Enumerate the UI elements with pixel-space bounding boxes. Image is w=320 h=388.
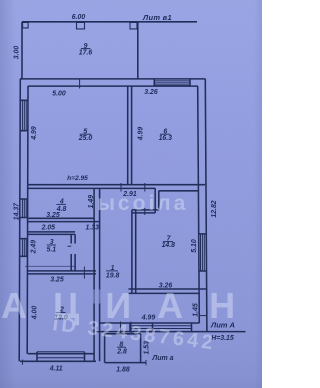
annex Лит в1 top line [22,21,197,23]
svg-text:4.99: 4.99 [138,127,145,142]
svg-text:h=2.95: h=2.95 [67,175,88,182]
serif bottom 1.88 [145,360,147,365]
svg-text:6.00: 6.00 [72,14,86,21]
svg-text:1.33: 1.33 [85,224,99,231]
bottom left wall outer [20,360,96,362]
window W3 left room3 [20,239,28,257]
svg-text:14.37: 14.37 [13,202,20,220]
window W2 left [20,199,28,218]
room 3 label [47,239,57,254]
svg-text:Лит а: Лит а [151,355,173,362]
serif closet bottom [144,208,146,215]
svg-text:5.00: 5.00 [52,90,66,97]
room 3 door dash [68,245,72,247]
svg-text:1.88: 1.88 [116,366,130,373]
room 8 label [116,341,127,355]
svg-text:5.10: 5.10 [191,239,198,253]
wall C door opening fade [93,290,101,304]
room 5 label [78,128,93,142]
room 3 right wall with door gap [71,234,75,270]
serif room5 bottom 2 [144,183,146,192]
room 3 bottom faint line [25,265,76,267]
svg-text:4.99: 4.99 [31,126,38,141]
annex right wall [137,22,139,79]
serif bottom left [22,360,24,365]
svg-text:3.25: 3.25 [46,212,60,219]
wall B rooms 1/7 divider [132,210,136,294]
svg-text:17.6: 17.6 [79,50,93,57]
svg-text:Лит в1: Лит в1 [142,13,172,22]
svg-text:1.49: 1.49 [88,195,95,209]
room 2 label [54,307,68,322]
window W6 bottom room2 [37,352,85,362]
svg-text:3.25: 3.25 [50,277,64,284]
main left wall inner [26,86,29,354]
room 7 label [162,236,176,249]
room 7 bottom wall [129,289,207,293]
main right wall inner [198,86,200,323]
closet bottom wall [132,210,159,213]
svg-text:АЦИАН: АЦИАН [1,285,261,326]
svg-text:19.8: 19.8 [106,273,120,280]
room 4 label [56,198,67,213]
serif veranda 1 [120,322,122,334]
room 9 label [79,43,93,57]
svg-text:25.0: 25.0 [78,135,93,142]
serif across right wall [199,315,207,317]
main right wall outer [205,79,207,332]
serif veranda 2 [130,322,132,334]
window W4 right wall [199,234,207,271]
room 2 top wall [28,271,96,274]
closet step left [155,188,159,213]
dim hook left [23,22,29,28]
bottom right band inner [100,322,200,324]
svg-text:2.49: 2.49 [30,240,37,255]
svg-text:14.8: 14.8 [162,242,176,249]
wall C vertical [94,188,100,361]
annex left wall [21,22,23,79]
main left wall outer [19,79,20,361]
bottom right band outer / ground line [96,331,246,333]
svg-text:2.8: 2.8 [116,348,127,355]
wall A rooms 5/6 divider [128,86,132,185]
svg-text:5.1: 5.1 [47,247,57,254]
serif top wall [79,79,81,89]
serif room2 top [83,267,85,279]
svg-text:12.82: 12.82 [211,200,218,217]
room 8 box [105,334,146,363]
window W7 veranda bottom [130,323,192,332]
dim hook right annex [130,22,137,29]
bottom left wall inner [28,353,94,355]
room 6 label [159,128,173,142]
svg-text:4.11: 4.11 [49,366,63,373]
svg-text:16.3: 16.3 [159,135,173,142]
dim hook mid [77,22,85,29]
svg-text:3.26: 3.26 [144,89,158,96]
svg-text:2.05: 2.05 [41,224,56,231]
room 3 top wall [28,232,75,235]
room 1 label [106,265,120,280]
svg-text:3.00: 3.00 [14,46,21,60]
main top wall inner [28,85,198,87]
window W1 left room5 [20,100,28,130]
room 4 bottom wall [28,218,100,221]
rooms 5-6 bottom wall [28,185,205,191]
serif room5 bottom 1 [120,183,122,192]
window W5 top wall [154,79,190,86]
svg-text:ысоіла: ысоіла [97,192,188,215]
main top wall outer [20,78,206,80]
